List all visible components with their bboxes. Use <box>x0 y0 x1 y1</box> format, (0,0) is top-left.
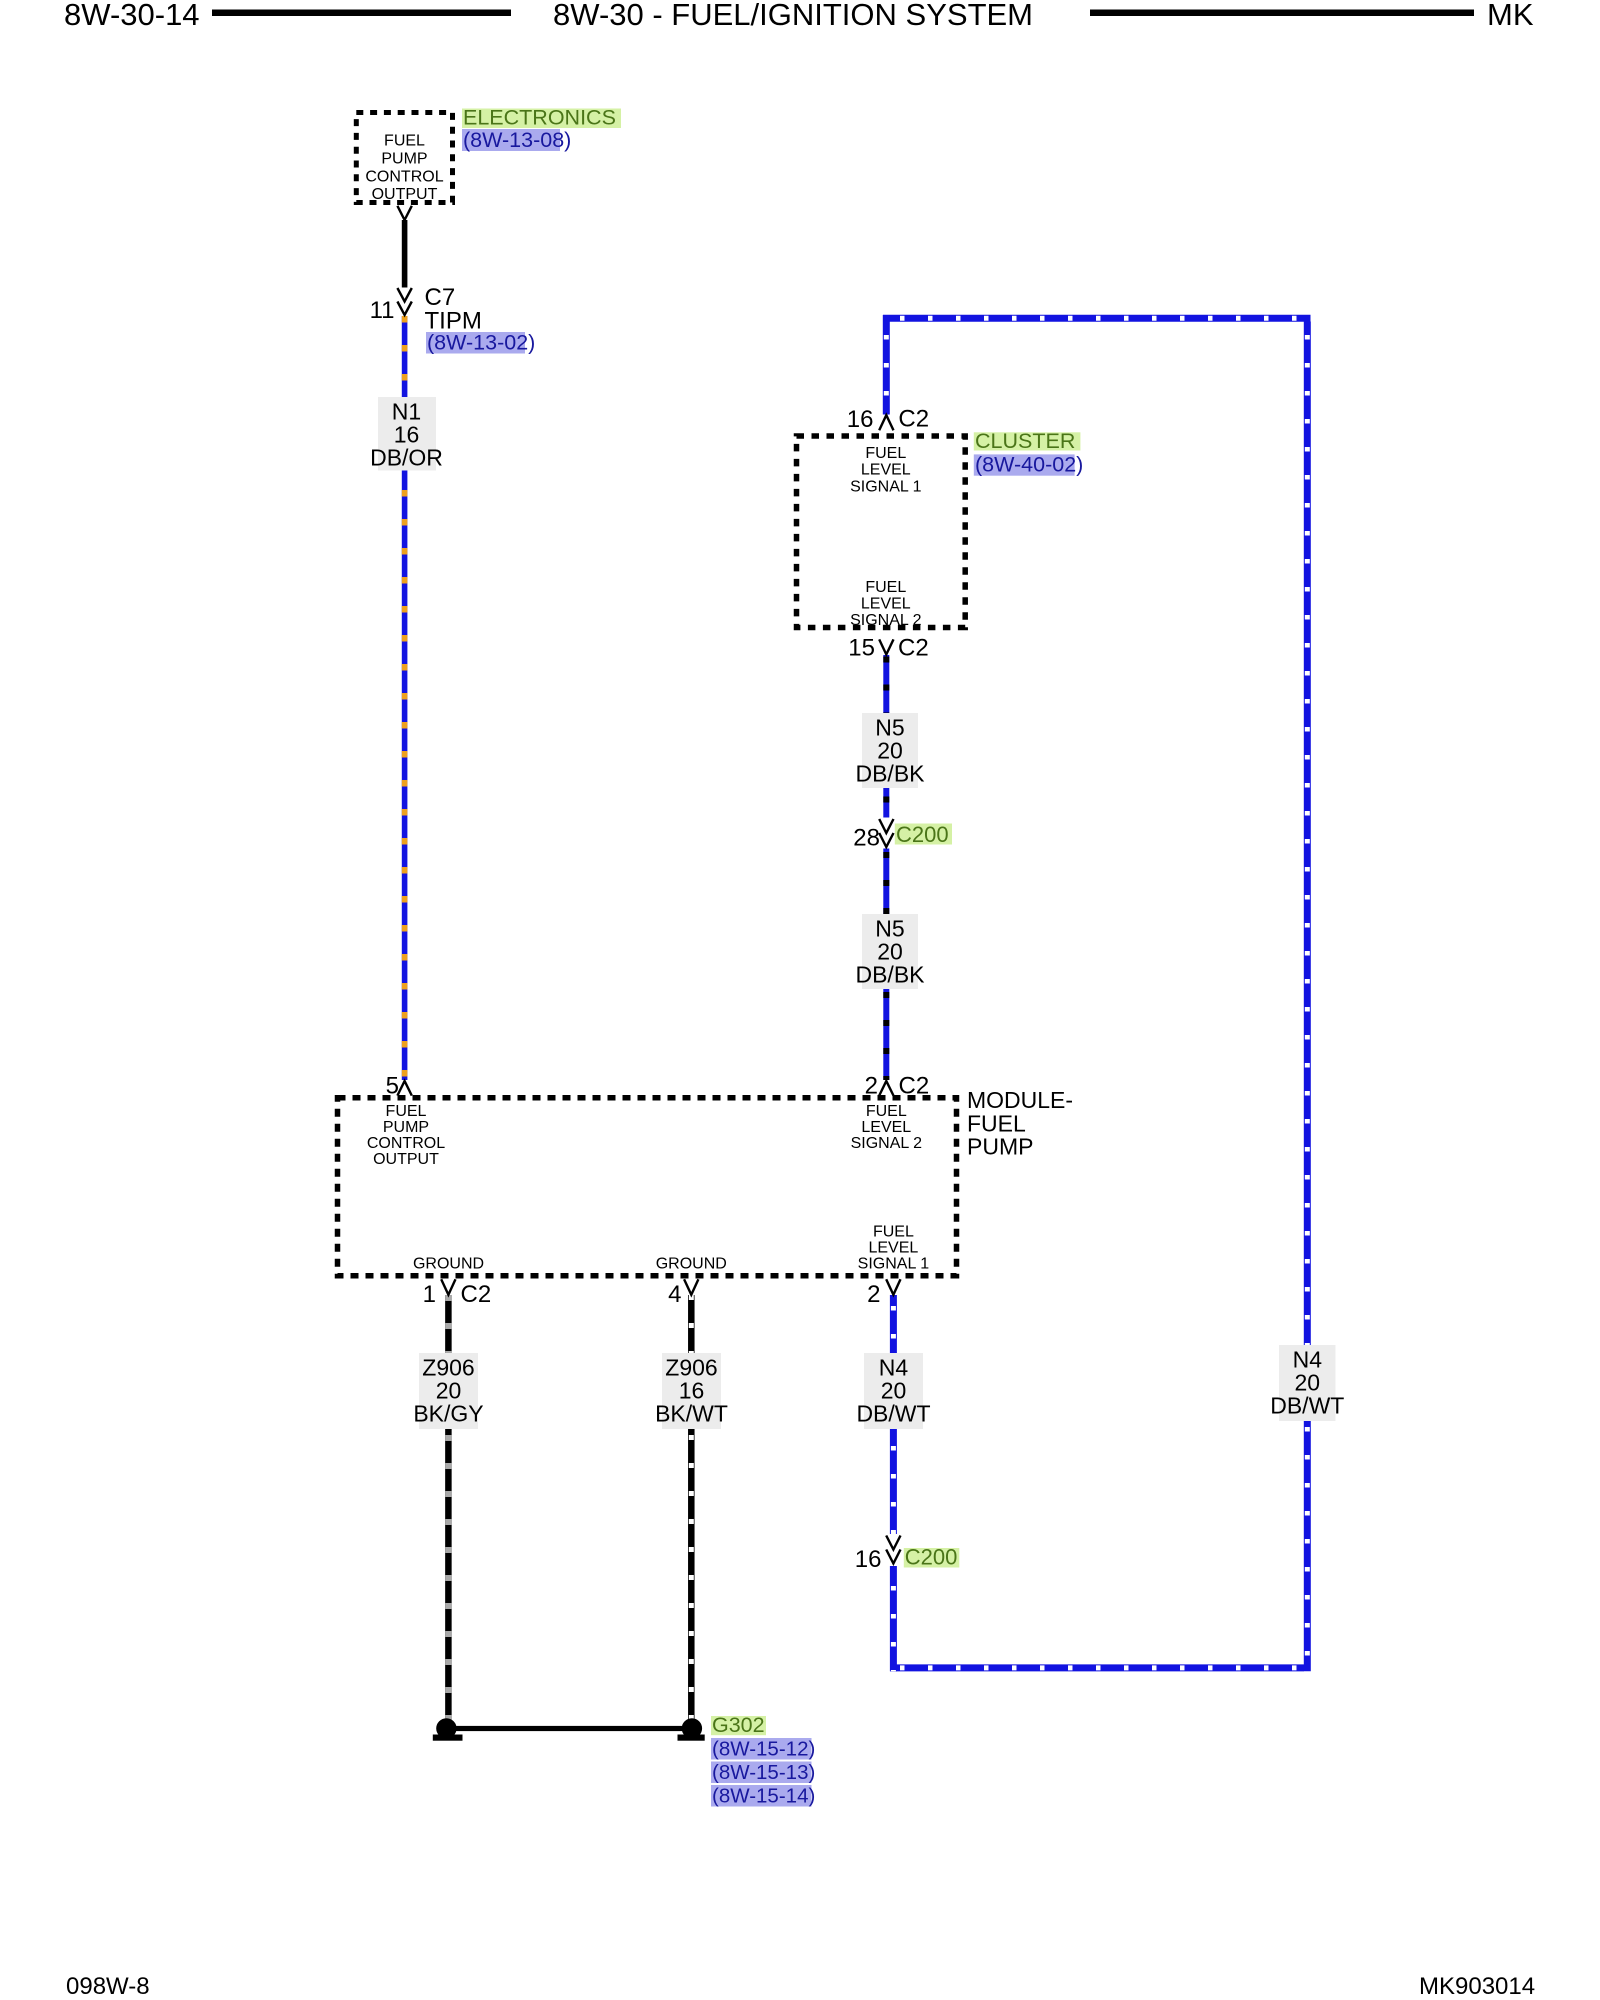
connector chevron below electronics box <box>397 206 411 220</box>
svg-text:SIGNAL 2: SIGNAL 2 <box>850 612 922 629</box>
fuel pump module dashed box <box>338 1098 957 1276</box>
svg-text:SIGNAL 2: SIGNAL 2 <box>851 1135 923 1152</box>
cluster pin16 chevron <box>879 415 893 430</box>
svg-text:(8W-15-12): (8W-15-12) <box>712 1738 815 1761</box>
svg-text:LEVEL: LEVEL <box>861 1119 911 1136</box>
svg-text:BK/GY: BK/GY <box>413 1401 483 1427</box>
(8W-15-13) reference <box>711 1762 812 1784</box>
header rule left <box>212 10 511 17</box>
electronics box label FUEL PUMP CONTROL OUTPUT <box>365 133 443 204</box>
module pin 2 chevron (top) <box>879 1081 893 1096</box>
svg-text:GROUND: GROUND <box>413 1256 484 1273</box>
module text FUEL LEVEL SIGNAL 2 <box>851 1103 923 1152</box>
module text FUEL LEVEL SIGNAL 1 <box>858 1224 930 1273</box>
svg-text:8W-30 - FUEL/IGNITION SYSTEM: 8W-30 - FUEL/IGNITION SYSTEM <box>553 0 1033 32</box>
svg-text:C200: C200 <box>905 1545 958 1570</box>
electronics module dashed box <box>356 113 452 203</box>
svg-text:C2: C2 <box>898 635 929 662</box>
svg-text:DB/BK: DB/BK <box>855 962 925 988</box>
svg-text:PUMP: PUMP <box>967 1134 1033 1160</box>
module pin 2 chevron (bottom) <box>886 1279 900 1295</box>
svg-text:4: 4 <box>668 1281 681 1308</box>
svg-text:28: 28 <box>853 825 880 852</box>
black wire from electronics box <box>402 220 408 288</box>
svg-text:C200: C200 <box>896 822 949 847</box>
svg-text:(8W-40-02): (8W-40-02) <box>975 453 1083 477</box>
svg-text:8W-30-14: 8W-30-14 <box>64 0 200 32</box>
module text FUEL PUMP CONTROL OUTPUT <box>367 1103 445 1168</box>
svg-text:FUEL: FUEL <box>873 1224 914 1241</box>
CLUSTER highlight <box>974 432 1081 450</box>
svg-text:MODULE-: MODULE- <box>967 1087 1073 1113</box>
cluster dashed box <box>797 436 966 628</box>
N4 20 DB/WT wire label (right riser) <box>1279 1345 1336 1421</box>
N5 20 DB/BK wire label upper <box>862 713 918 788</box>
module pin 5 chevron <box>397 1081 411 1096</box>
svg-text:OUTPUT: OUTPUT <box>372 186 438 203</box>
N1 16 DB/OR wire label <box>378 397 436 471</box>
svg-text:DB/WT: DB/WT <box>856 1401 930 1427</box>
svg-text:OUTPUT: OUTPUT <box>373 1151 439 1168</box>
cluster label FUEL LEVEL SIGNAL 2 <box>850 579 922 629</box>
svg-text:LEVEL: LEVEL <box>868 1240 918 1257</box>
svg-text:(8W-15-13): (8W-15-13) <box>712 1761 815 1784</box>
svg-text:098W-8: 098W-8 <box>66 1973 150 2000</box>
svg-text:15: 15 <box>848 635 875 662</box>
Z906 16 BK/WT wire label <box>662 1353 721 1429</box>
svg-text:CONTROL: CONTROL <box>367 1135 445 1152</box>
(8W-13-02) reference <box>426 332 525 354</box>
svg-text:FUEL: FUEL <box>866 1103 907 1120</box>
connector C200 double chevron (lower) <box>886 1536 900 1550</box>
svg-text:CONTROL: CONTROL <box>365 169 443 186</box>
G302 highlight <box>711 1716 766 1735</box>
wire N5 DB/BK lower segment (C200 to module) <box>883 849 889 1081</box>
svg-text:(8W-13-02): (8W-13-02) <box>427 331 535 355</box>
C200 highlight <box>895 824 952 845</box>
svg-text:(8W-15-14): (8W-15-14) <box>712 1785 815 1808</box>
svg-text:FUEL: FUEL <box>384 133 425 150</box>
svg-text:(8W-13-08): (8W-13-08) <box>463 128 571 152</box>
connector C200 double chevron <box>879 819 893 833</box>
svg-text:GROUND: GROUND <box>656 1256 727 1273</box>
svg-text:DB/OR: DB/OR <box>370 445 443 471</box>
wire N5 DB/BK upper segment (cluster to C200) <box>883 655 889 818</box>
svg-text:DB/BK: DB/BK <box>855 761 925 787</box>
svg-text:DB/WT: DB/WT <box>1270 1393 1344 1419</box>
svg-text:16: 16 <box>847 406 874 433</box>
ground bus G302 <box>445 1726 694 1731</box>
N4 20 DB/WT wire label (center) <box>864 1353 923 1429</box>
cluster label FUEL LEVEL SIGNAL 1 <box>850 445 922 495</box>
ground junction dot right <box>682 1718 702 1738</box>
wire N4 DB/WT (C200 to corner) <box>890 1566 897 1671</box>
svg-text:FUEL: FUEL <box>865 579 906 596</box>
svg-text:PUMP: PUMP <box>381 151 427 168</box>
svg-text:FUEL: FUEL <box>865 445 906 462</box>
svg-text:C2: C2 <box>898 406 929 433</box>
module label MODULE- FUEL PUMP <box>967 1087 1073 1160</box>
svg-text:SIGNAL 1: SIGNAL 1 <box>858 1256 930 1273</box>
wire Z906 BK/WT (module pin 4 to G302) <box>688 1295 695 1726</box>
N5 20 DB/BK wire label lower <box>862 914 918 989</box>
(8W-40-02) reference <box>974 454 1075 475</box>
(8W-15-14) reference <box>711 1785 812 1807</box>
svg-text:FUEL: FUEL <box>386 1103 427 1120</box>
wire N1 DB/OR (TIPM to fuel pump module, x=405) <box>402 316 408 1080</box>
ELECTRONICS highlight <box>462 109 621 129</box>
svg-text:PUMP: PUMP <box>383 1119 429 1136</box>
svg-text:G302: G302 <box>712 1713 765 1737</box>
ground symbol bar left <box>433 1735 463 1741</box>
Z906 20 BK/GY wire label <box>419 1353 478 1429</box>
svg-text:LEVEL: LEVEL <box>861 596 911 613</box>
svg-text:16: 16 <box>855 1546 882 1573</box>
wire N4 DB/WT bottom horizontal <box>890 1664 1304 1671</box>
connector C7 double chevron <box>397 288 411 302</box>
svg-text:2: 2 <box>867 1281 880 1308</box>
svg-text:MK: MK <box>1487 0 1534 32</box>
(8W-15-12) reference <box>711 1738 812 1760</box>
ground symbol bar right <box>678 1735 705 1741</box>
wire Z906 BK/GY (module pin 1 to G302) <box>445 1295 452 1726</box>
svg-text:CLUSTER: CLUSTER <box>975 429 1075 453</box>
svg-text:1: 1 <box>423 1281 436 1308</box>
svg-text:11: 11 <box>370 297 395 324</box>
wire N4 DB/WT short drop to cluster pin 16 <box>883 315 890 415</box>
ground junction dot left <box>436 1718 456 1738</box>
(8W-13-08) reference <box>462 129 560 151</box>
wire N4 DB/WT right riser <box>1304 322 1311 1672</box>
cluster pin15 chevron <box>879 639 893 654</box>
C200 highlight (lower) <box>904 1548 960 1568</box>
wire N4 DB/WT (module pin 2 down to C200) <box>890 1295 897 1534</box>
module pin 1 chevron <box>441 1279 455 1295</box>
header rule right <box>1090 10 1474 17</box>
wire N4 DB/WT top horizontal (cluster to right riser) <box>883 315 1311 322</box>
svg-text:ELECTRONICS: ELECTRONICS <box>463 106 616 130</box>
svg-text:C2: C2 <box>461 1281 492 1308</box>
module pin 4 chevron <box>684 1279 698 1295</box>
svg-text:MK903014: MK903014 <box>1419 1973 1535 2000</box>
svg-text:BK/WT: BK/WT <box>655 1401 728 1427</box>
svg-text:LEVEL: LEVEL <box>861 462 911 479</box>
svg-text:SIGNAL 1: SIGNAL 1 <box>850 478 922 495</box>
